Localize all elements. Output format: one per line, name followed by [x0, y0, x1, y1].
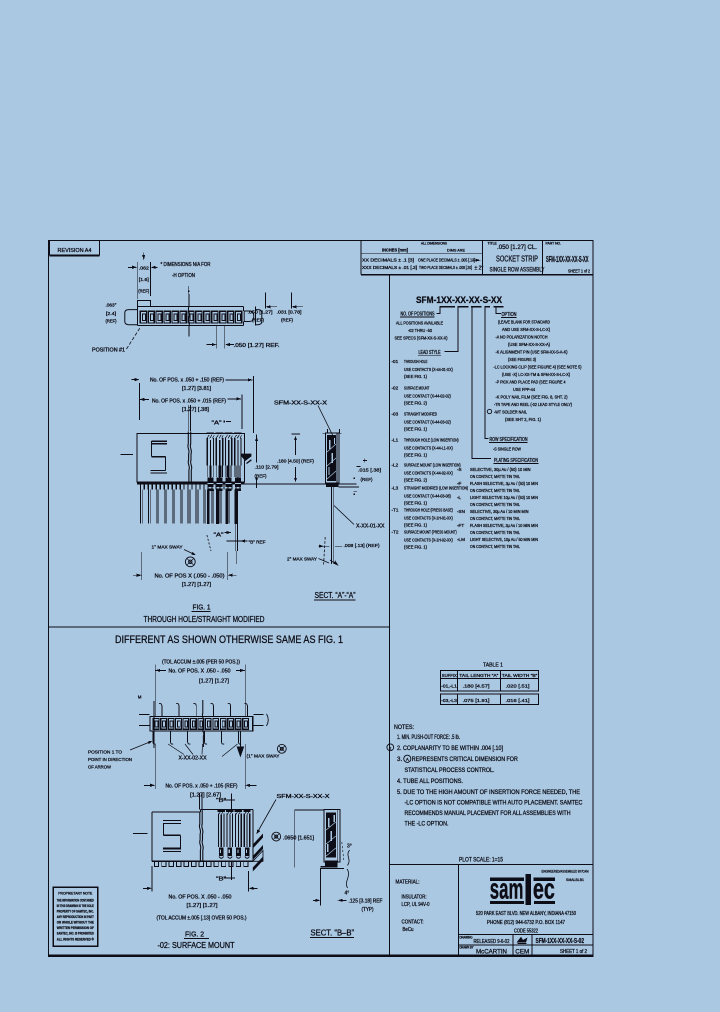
- svg-text:.0650 [1.651]: .0650 [1.651]: [283, 835, 315, 841]
- sect A-A contact fill: [327, 435, 336, 481]
- svg-text:USE CONTACTS (X-1H-02-XX): USE CONTACTS (X-1H-02-XX): [404, 537, 453, 542]
- svg-text:TAIL LENGTH “A”: TAIL LENGTH “A”: [459, 673, 498, 679]
- svg-text:-02: SURFACE MOUNT: -02: SURFACE MOUNT: [158, 941, 235, 950]
- svg-text:THE -LC OPTION.: THE -LC OPTION.: [405, 820, 449, 827]
- fig1 sway dash near pin: [207, 535, 211, 551]
- svg-text:SECT. “A”-“A”: SECT. “A”-“A”: [315, 591, 356, 600]
- svg-text:No. OF POS. x .050 + .105 (REF: No. OF POS. x .050 + .105 (REF): [166, 784, 238, 790]
- svg-text:.015 [.38]: .015 [.38]: [358, 467, 381, 473]
- svg-text:USE FPP-44: USE FPP-44: [513, 387, 535, 392]
- svg-text:-01: -01: [392, 359, 399, 364]
- svg-text:-S SINGLE ROW: -S SINGLE ROW: [493, 446, 522, 451]
- svg-text:(USE -X) LC-XX-TM & SFM-XX-S-L: (USE -X) LC-XX-TM & SFM-XX-S-LC-X): [502, 372, 570, 377]
- svg-text:PHONE (812) 944-6732 P.O. B: PHONE (812) 944-6732 P.O. BOX 1147: [487, 920, 565, 926]
- fig2 break line: [202, 700, 203, 747]
- fig1 insertion wedge arrow: [241, 454, 252, 461]
- svg-text:SHEET 1 of 2: SHEET 1 of 2: [560, 949, 587, 955]
- svg-text:ON CONTACT, MATTE TIN TAIL: ON CONTACT, MATTE TIN TAIL: [470, 474, 520, 479]
- svg-text:POSITION 1 TO: POSITION 1 TO: [88, 749, 122, 755]
- fig1 body: [137, 433, 245, 482]
- pin width dim .015: [356, 466, 360, 468]
- svg-text:REVISION A4: REVISION A4: [58, 248, 92, 254]
- svg-text:SFM-1XX-XX-XX-S-XX: SFM-1XX-XX-XX-S-XX: [546, 254, 589, 264]
- fig2 section line B bottom: [231, 861, 233, 880]
- svg-text:USE CONTACT (X-44-03-08): USE CONTACT (X-44-03-08): [404, 493, 451, 498]
- fig1 samtec S logo: [152, 440, 168, 442]
- svg-text:(SEE FIG. 1): (SEE FIG. 1): [404, 453, 427, 458]
- centerline mark: [188, 286, 190, 296]
- svg-text:-TR TAPE AND REEL (-02 LEAD S: -TR TAPE AND REEL (-02 LEAD STYLE ONLY): [494, 402, 572, 407]
- svg-text:(SEE FIG. 1): (SEE FIG. 1): [404, 427, 427, 432]
- right side dims .050/.031: [265, 293, 267, 309]
- svg-text:No. OF POS. x .050 + .015 (REF: No. OF POS. x .050 + .015 (REF): [152, 398, 226, 404]
- svg-text:[1.27] [.38]: [1.27] [.38]: [182, 407, 210, 413]
- svg-text:SFM-1XX-XX-XX-S-02: SFM-1XX-XX-XX-S-02: [536, 938, 585, 945]
- fig1 last pin with section cut: [235, 490, 237, 551]
- sway dashed line: [324, 537, 326, 565]
- svg-text:TAIL WIDTH “B”: TAIL WIDTH “B”: [502, 673, 538, 679]
- svg-text:INSULATOR:: INSULATOR:: [402, 894, 427, 900]
- svg-text:.063°: .063°: [106, 303, 117, 308]
- spc symbol fig1: [185, 557, 195, 567]
- svg-text:WRITTEN PERMISSION OF: WRITTEN PERMISSION OF: [57, 925, 94, 930]
- fig1 dim no. of pos +.150: [132, 379, 139, 381]
- svg-text:SEE SPECS (SFM-XX-S-XX-X): SEE SPECS (SFM-XX-S-XX-X): [395, 335, 448, 340]
- release stamp glyph: [517, 937, 528, 943]
- svg-text:-LC LOCKING CLIP (SEE FIGURE: -LC LOCKING CLIP (SEE FIGURE 4) (SEE NOT…: [494, 364, 582, 369]
- solder nail diamond mark: [487, 409, 491, 413]
- svg-text:IN THIS DRAWING IS THE SOLE: IN THIS DRAWING IS THE SOLE: [57, 903, 94, 908]
- svg-text:SURFACE MOUNT: SURFACE MOUNT: [404, 386, 429, 391]
- svg-text:-P PICK AND PLACE PAD (SEE FI: -P PICK AND PLACE PAD (SEE FIGURE 4: [496, 379, 566, 384]
- svg-text:ALL RIGHTS RESERVED ©: ALL RIGHTS RESERVED ©: [57, 936, 94, 941]
- svg-text:ON CONTACT, MATTE TIN TAIL: ON CONTACT, MATTE TIN TAIL: [470, 502, 520, 507]
- svg-text:(REF): (REF): [361, 477, 373, 483]
- svg-text:USE CONTACTS (X-44-L1-XX): USE CONTACTS (X-44-L1-XX): [404, 445, 453, 450]
- fig2 side rails: [139, 714, 150, 716]
- svg-text:REPRESENTS CRITICAL DIMENSION: REPRESENTS CRITICAL DIMENSION FOR: [412, 756, 518, 763]
- svg-text:-T2: -T2: [392, 530, 399, 535]
- sect A-A pin: [331, 487, 333, 564]
- svg-text:2. COPLANARITY TO BE WITHIN .0: 2. COPLANARITY TO BE WITHIN .004 [.10]: [397, 745, 503, 752]
- svg-text:(REF): (REF): [281, 317, 293, 322]
- revision box: [50, 241, 100, 256]
- fig2 strip body: [150, 717, 253, 732]
- svg-text:SECT. “B–B”: SECT. “B–B”: [311, 928, 355, 937]
- svg-text:-03: -03: [392, 412, 399, 417]
- svg-text:.110 [2.79]: .110 [2.79]: [255, 464, 279, 470]
- svg-text:THROUGH HOLE/STRAIGHT MODIFIED: THROUGH HOLE/STRAIGHT MODIFIED: [144, 615, 265, 624]
- svg-text:.031 [0.78]: .031 [0.78]: [277, 309, 302, 314]
- svg-text:No. OF POS. X .050 - .050: No. OF POS. X .050 - .050: [169, 895, 232, 901]
- svg-text:PLOT SCALE: 1=15: PLOT SCALE: 1=15: [459, 856, 503, 863]
- svg-text:“A”: “A”: [214, 532, 224, 538]
- fig1 contact tails dark: [207, 490, 210, 524]
- svg-text:(SEE FIG. 1): (SEE FIG. 1): [404, 523, 427, 528]
- svg-text:XX DECIMALS ± .1 [3]: XX DECIMALS ± .1 [3]: [362, 258, 414, 263]
- svg-text:5. DUE TO THE HIGH AMOUNT OF I: 5. DUE TO THE HIGH AMOUNT OF INSERTION F…: [397, 789, 580, 796]
- svg-text:(TYP): (TYP): [362, 907, 374, 913]
- svg-text:(LEAVE BLANK FOR STANDARD: (LEAVE BLANK FOR STANDARD: [498, 319, 551, 324]
- samtec logo: [490, 877, 524, 881]
- dim .110 vertical: [256, 435, 258, 463]
- svg-text:X-XX-02-XX: X-XX-02-XX: [179, 755, 208, 761]
- svg-text:[1.27] [1.27]: [1.27] [1.27]: [199, 679, 230, 685]
- svg-text:(USE SFM-XX-S-XX-A): (USE SFM-XX-S-XX-A): [508, 342, 550, 347]
- svg-text:-L3: -L3: [392, 486, 399, 491]
- svg-text:INCHES [mm]: INCHES [mm]: [382, 248, 408, 253]
- svg-text:No. OF POS. x .050 + .150 (REF: No. OF POS. x .050 + .150 (REF): [150, 377, 224, 383]
- svg-text:ON CONTACT, MATTE TIN TAIL: ON CONTACT, MATTE TIN TAIL: [470, 544, 520, 549]
- top view dimension .062: [143, 253, 145, 260]
- svg-text:USE CONTACTS (X-1H-01-XX): USE CONTACTS (X-1H-01-XX): [404, 515, 453, 520]
- sway bottom arrow: [333, 561, 340, 567]
- svg-text:sam: sam: [490, 873, 524, 906]
- svg-text:ON CONTACT, MATTE TIN TAIL: ON CONTACT, MATTE TIN TAIL: [470, 516, 520, 521]
- svg-text:NOTES:: NOTES:: [394, 724, 414, 731]
- svg-text:-L1: -L1: [392, 438, 399, 443]
- right tongue: [255, 310, 261, 325]
- note 2 circled mark: [387, 744, 394, 751]
- sect B-B body: [324, 810, 340, 862]
- svg-text:-F: -F: [457, 481, 462, 486]
- fig2 break line: [199, 812, 200, 861]
- svg-text:TABLE 1: TABLE 1: [483, 662, 503, 668]
- svg-text:520 PARK EAST BLVD. NEW ALBAN: 520 PARK EAST BLVD. NEW ALBANY, INDIANA …: [476, 911, 576, 917]
- svg-text:-L2: -L2: [392, 463, 399, 468]
- pitch dim extension lines below: [216, 326, 218, 349]
- svg-text:3°: 3°: [347, 843, 352, 849]
- svg-text:(SEE FIG. 2): (SEE FIG. 2): [404, 478, 427, 483]
- svg-text:(SEE FIG. 1): (SEE FIG. 1): [404, 374, 427, 379]
- divider between figures and breakdown: [389, 275, 391, 956]
- svg-text:ON CONTACT, MATTE TIN TAIL: ON CONTACT, MATTE TIN TAIL: [470, 530, 520, 535]
- svg-text:OR WHOLE WITHOUT THE: OR WHOLE WITHOUT THE: [57, 920, 94, 925]
- svg-text:.020 [.51]: .020 [.51]: [506, 683, 530, 689]
- svg-text:LIGHT SELECTIVE, 10µ Au / 50 M: LIGHT SELECTIVE, 10µ Au / 50 MIN MIN: [470, 537, 538, 542]
- svg-text:PROPRIETARY NOTE: PROPRIETARY NOTE: [58, 891, 92, 895]
- material column divider: [458, 865, 460, 956]
- svg-text:SOCKET STRIP: SOCKET STRIP: [496, 254, 538, 263]
- sect B-B foot dim: [319, 868, 321, 905]
- svg-text:.062: .062: [139, 265, 150, 270]
- break line through top view: [188, 294, 190, 307]
- svg-text:-K ALIGNMENT PIN (USE SFM-XX-: -K ALIGNMENT PIN (USE SFM-XX-S-A-K): [496, 349, 568, 354]
- svg-text:ON CONTACT, MATTE TIN TAIL: ON CONTACT, MATTE TIN TAIL: [470, 488, 520, 493]
- proprietary note box: [53, 887, 97, 946]
- table 1 header box: [441, 671, 539, 691]
- svg-text:SURFACE MOUNT (PRESS MOUNT): SURFACE MOUNT (PRESS MOUNT): [404, 530, 457, 535]
- fig1 bottom dim: [141, 552, 143, 580]
- svg-text:PROPERTY OF SAMTEC, INC.: PROPERTY OF SAMTEC, INC.: [57, 909, 94, 914]
- svg-text:SMALBLB1: SMALBLB1: [566, 877, 585, 882]
- svg-text:USE CONTACTS (X-44-02-XX): USE CONTACTS (X-44-02-XX): [404, 470, 453, 475]
- leader to option: [496, 308, 501, 314]
- svg-text:STRAIGHT MODIFIED: STRAIGHT MODIFIED: [404, 412, 438, 417]
- svg-text:(1° MAX SWAY: (1° MAX SWAY: [247, 753, 281, 759]
- svg-text:XXX DECIMALS ± .01 [.3]: XXX DECIMALS ± .01 [.3]: [362, 265, 417, 270]
- svg-text:-02: -02: [392, 386, 399, 391]
- svg-text:FLASH SELECTIVE, 3µ Au / 10 MI: FLASH SELECTIVE, 3µ Au / 10 MIN MIN: [470, 523, 538, 528]
- leader to plating specification: [472, 308, 491, 459]
- segment underlines: [440, 306, 456, 308]
- svg-text:PART NO.: PART NO.: [546, 241, 562, 245]
- svg-text:[1.6]: [1.6]: [139, 277, 149, 282]
- svg-text:“B”: “B”: [216, 798, 226, 804]
- svg-text:“A”: “A”: [212, 420, 222, 426]
- svg-text:-01,-L1: -01,-L1: [441, 683, 457, 689]
- svg-text:DRAWING: DRAWING: [460, 936, 473, 940]
- svg-text:SURFACE MOUNT (LOW INSERTION): SURFACE MOUNT (LOW INSERTION): [404, 463, 461, 468]
- fig1 extension lines: [139, 383, 141, 420]
- svg-text:SINGLE ROW ASSEMBLY: SINGLE ROW ASSEMBLY: [490, 266, 545, 273]
- tolerance block: [360, 241, 362, 275]
- svg-text:CODE 55322: CODE 55322: [514, 929, 538, 935]
- top view strip body: [125, 310, 138, 325]
- svg-text:THROUGH HOLE (PRESS BASE): THROUGH HOLE (PRESS BASE): [404, 508, 453, 513]
- svg-text:ANY REPRODUCTION IN PART: ANY REPRODUCTION IN PART: [57, 914, 94, 919]
- svg-text:.050 [1.27]: .050 [1.27]: [248, 309, 273, 314]
- svg-text:.050 [1.27] CL.: .050 [1.27] CL.: [497, 244, 537, 251]
- fig1 pcb line: [244, 483, 356, 485]
- svg-text:.180 [4.57]: .180 [4.57]: [463, 683, 490, 689]
- svg-text:-H OPTION: -H OPTION: [172, 273, 195, 279]
- svg-text:-L: -L: [457, 495, 462, 500]
- svg-text:-A NO POLARIZATION NOTCH: -A NO POLARIZATION NOTCH: [496, 334, 548, 339]
- svg-text:(SEE FIG. 1): (SEE FIG. 1): [404, 501, 427, 506]
- svg-text:-02 THRU -50: -02 THRU -50: [408, 328, 432, 333]
- svg-text:-S: -S: [457, 467, 462, 472]
- svg-text:(TOL ACCUM ±.005 [.13] OVER 50: (TOL ACCUM ±.005 [.13] OVER 50 POS.): [157, 916, 247, 922]
- svg-text:-SN: -SN: [457, 509, 465, 514]
- fig1 break line: [188, 432, 189, 484]
- svg-text:4. TUBE ALL POSITIONS.: 4. TUBE ALL POSITIONS.: [397, 778, 463, 785]
- fig2 side bottom dim: [151, 866, 153, 892]
- svg-text:.075 [1.91]: .075 [1.91]: [463, 698, 490, 704]
- svg-text:AND USE SFM-XX-S-LC-X): AND USE SFM-XX-S-LC-X): [502, 327, 550, 332]
- svg-text:SELECTIVE, 30µ Au / (50) 10 MI: SELECTIVE, 30µ Au / (50) 10 MIN: [470, 467, 530, 472]
- dim .180 vertical arrows: [295, 437, 297, 455]
- svg-text:-LC OPTION IS NOT COMPATIBLE W: -LC OPTION IS NOT COMPATIBLE WITH AUTO P…: [405, 799, 583, 806]
- top ref line fig1 right: [292, 433, 301, 435]
- spc symbol fig2: [277, 744, 286, 753]
- svg-text:-FT: -FT: [457, 523, 464, 528]
- svg-text:TITLE: TITLE: [488, 241, 498, 245]
- fig2 contacts surface mount: [218, 810, 225, 812]
- leader to lead style: [445, 308, 458, 352]
- svg-text:ALL DIMENSIONS: ALL DIMENSIONS: [421, 242, 448, 246]
- fig2 bottom dim: [154, 744, 156, 789]
- svg-text:McCARTIN: McCARTIN: [476, 949, 507, 956]
- svg-text:USE CONTACT (X-44-02-02): USE CONTACT (X-44-02-02): [404, 393, 451, 398]
- svg-text:3.: 3.: [397, 756, 402, 763]
- svg-text:(SEE SHT 2, FIG. 1): (SEE SHT 2, FIG. 1): [505, 417, 541, 422]
- fig2 upper tails: [161, 706, 163, 717]
- svg-text:.180 [4.50] (REF): .180 [4.50] (REF): [277, 458, 314, 464]
- sect A-A body: [326, 433, 339, 484]
- svg-text:.125 [3.18] REF: .125 [3.18] REF: [349, 898, 383, 904]
- svg-text:-WT SOLDER NAIL: -WT SOLDER NAIL: [494, 409, 527, 414]
- svg-text:“B”: “B”: [216, 876, 226, 882]
- title block bottom rows: [459, 934, 593, 936]
- svg-text:STRAIGHT MODIFIED (LOW INSERTI: STRAIGHT MODIFIED (LOW INSERTION): [404, 486, 468, 491]
- svg-text:.050 [1.27] REF.: .050 [1.27] REF.: [234, 343, 280, 349]
- fig1 long pins: [139, 490, 141, 524]
- svg-text:DIMS ARE: DIMS ARE: [447, 249, 465, 253]
- svg-text:ALL POSITIONS AVAILABLE: ALL POSITIONS AVAILABLE: [396, 320, 443, 325]
- svg-text:USE CONTACT (X-44-03-02): USE CONTACT (X-44-03-02): [404, 419, 451, 424]
- svg-text:THE INFORMATION CONTAINED: THE INFORMATION CONTAINED: [57, 897, 94, 902]
- title block top line: [390, 864, 594, 866]
- fig2 wedge hatch: [253, 834, 263, 849]
- svg-text:1. MIN. PUSH-OUT FORCE: .5 lb.: 1. MIN. PUSH-OUT FORCE: .5 lb.: [397, 734, 460, 741]
- svg-text:CONTACT:: CONTACT:: [402, 919, 424, 925]
- svg-text:[1.27] [1.27]: [1.27] [1.27]: [182, 582, 212, 588]
- svg-text:RELEASED 9-6-02: RELEASED 9-6-02: [474, 939, 510, 945]
- svg-text:FLASH SELECTIVE, 3µ Au / (50): FLASH SELECTIVE, 3µ Au / (50) 10 MIN: [470, 481, 538, 486]
- fig1 left reference dash: [121, 454, 134, 456]
- fig1 contacts through-hole: [206, 432, 214, 434]
- svg-text:-03,-L3: -03,-L3: [441, 698, 457, 704]
- svg-text:DRAWN BY: DRAWN BY: [460, 946, 475, 950]
- leader to row specification: [485, 308, 489, 439]
- svg-text:BeCu: BeCu: [403, 927, 414, 933]
- svg-text:SUFFIX: SUFFIX: [442, 673, 458, 679]
- svg-text:No. OF POS X (.050 - .050): No. OF POS X (.050 - .050): [155, 573, 225, 579]
- svg-text:SFM-XX-S-XX-X: SFM-XX-S-XX-X: [277, 794, 331, 800]
- svg-text:CEM: CEM: [515, 949, 529, 956]
- polarization cavity right end: [244, 311, 254, 322]
- svg-text:[1.27] [3.81]: [1.27] [3.81]: [182, 386, 212, 392]
- svg-text:2° MAX SWAY: 2° MAX SWAY: [287, 556, 318, 562]
- svg-text:.008 [.13] (REF): .008 [.13] (REF): [344, 543, 380, 549]
- fig2 break extension above: [199, 793, 201, 810]
- svg-text:A: A: [406, 757, 409, 762]
- sect B-B solder foot: [325, 861, 338, 867]
- svg-text:SFM-1XX-XX-XX-S-XX: SFM-1XX-XX-XX-S-XX: [416, 294, 503, 305]
- svg-text:-K POLY NAIL FILM (SEE FIG. 8: -K POLY NAIL FILM (SEE FIG. 8, SHT. 2): [496, 394, 568, 399]
- svg-text:SELECTIVE, 30µ Au / 10 MIN MIN: SELECTIVE, 30µ Au / 10 MIN MIN: [470, 509, 529, 514]
- svg-text:THROUGH HOLE (LOW INSERTION): THROUGH HOLE (LOW INSERTION): [404, 438, 459, 443]
- svg-text:MATERIAL:: MATERIAL:: [396, 879, 420, 885]
- sect A-A pcb lines: [339, 483, 357, 485]
- svg-text:FIG. 2: FIG. 2: [185, 929, 204, 938]
- svg-text:ec: ec: [533, 873, 555, 906]
- direction arrow fig2: [239, 732, 241, 748]
- svg-text:DIFFERENT AS SHOWN OTHERWISE S: DIFFERENT AS SHOWN OTHERWISE SAME AS FIG…: [115, 634, 343, 646]
- svg-text:[1.27] [1.27]: [1.27] [1.27]: [187, 903, 219, 909]
- svg-text:(SEE FIG. 1): (SEE FIG. 1): [404, 545, 427, 550]
- svg-text:RECOMMENDS MANUAL PLACEMENT FO: RECOMMENDS MANUAL PLACEMENT FOR ALL ASSE…: [405, 810, 571, 817]
- fig2 coplanarity symbol: [272, 832, 281, 841]
- svg-text:POSITION #1: POSITION #1: [92, 348, 125, 354]
- fig2 body: [152, 811, 201, 813]
- label B ref: [227, 540, 248, 542]
- divider between fig1 and fig2 areas: [49, 626, 390, 628]
- svg-text:No. OF POS. X .050 - .050: No. OF POS. X .050 - .050: [169, 669, 231, 675]
- svg-text:ONE PLACE DECIMALS ± .005 [.13: ONE PLACE DECIMALS ± .005 [.13]: [418, 258, 475, 263]
- leader to no. of positions: [437, 308, 440, 314]
- svg-text:THROUGH HOLE: THROUGH HOLE: [404, 359, 427, 364]
- dim .008 sway: [319, 545, 330, 547]
- sheet frame border: [49, 241, 594, 956]
- svg-text:(REF): (REF): [106, 319, 117, 324]
- svg-text:4°: 4°: [345, 890, 350, 896]
- svg-text:SAMTEC, INC. IS PROHIBITED: SAMTEC, INC. IS PROHIBITED: [57, 931, 94, 936]
- svg-text:LIGHT SELECTIVE 10µ Au / (50): LIGHT SELECTIVE 10µ Au / (50) 10 MIN: [470, 495, 538, 500]
- sect A-A solder foot: [326, 483, 339, 488]
- table 1 second row box: [441, 694, 539, 704]
- svg-text:FIG. 1: FIG. 1: [193, 602, 211, 611]
- svg-text:USE CONTACTS (X-44-01-XX): USE CONTACTS (X-44-01-XX): [404, 367, 453, 372]
- fig2 left reference dash: [133, 833, 148, 835]
- svg-text:LCP, UL 94V-0: LCP, UL 94V-0: [402, 902, 430, 908]
- svg-text:-T1: -T1: [392, 508, 399, 513]
- svg-text:(REF): (REF): [255, 473, 267, 479]
- svg-text:X-XX-01-XX: X-XX-01-XX: [356, 523, 385, 529]
- svg-text:TWO PLACE DECIMALS ± .008 [.20: TWO PLACE DECIMALS ± .008 [.20]: [419, 265, 472, 270]
- svg-text:± 2°: ± 2°: [475, 265, 484, 271]
- fig2 smt feet: [154, 862, 158, 867]
- sect B-B bracket: [295, 809, 324, 811]
- svg-text:POINT IN DIRECTION: POINT IN DIRECTION: [88, 757, 132, 763]
- svg-text:(SEE FIGURE 3): (SEE FIGURE 3): [508, 357, 536, 362]
- svg-text:STATISTICAL PROCESS CONTROL.: STATISTICAL PROCESS CONTROL.: [405, 767, 495, 774]
- svg-text:-LM: -LM: [457, 537, 465, 542]
- svg-text:(REF): (REF): [138, 288, 149, 293]
- svg-text:OF ARROW: OF ARROW: [88, 764, 111, 770]
- svg-text:SHEET 1 of 2: SHEET 1 of 2: [568, 268, 590, 273]
- svg-text:M: M: [138, 694, 142, 699]
- svg-text:(REF): (REF): [252, 317, 264, 322]
- svg-text:(TOL ACCUM ±.005 (PER 50 POS.): (TOL ACCUM ±.005 (PER 50 POS.)): [162, 659, 240, 665]
- fig2 samtec S logo: [163, 820, 181, 822]
- fig1 pin shoulders: [139, 485, 141, 490]
- svg-text:[2.4]: [2.4]: [106, 311, 116, 316]
- svg-text:SFM-XX-S-XX-X: SFM-XX-S-XX-X: [274, 400, 328, 406]
- svg-text:.016 [.41]: .016 [.41]: [506, 698, 530, 704]
- svg-text:1° MAX SWAY: 1° MAX SWAY: [152, 544, 184, 550]
- svg-text:“B” REF: “B” REF: [249, 539, 266, 545]
- fig1 dim no. of pos +.015: [140, 398, 150, 400]
- svg-text:* DIMENSIONS N/A FOR: * DIMENSIONS N/A FOR: [161, 262, 211, 268]
- fig2 lower tails: [152, 731, 154, 742]
- svg-text:(SEE FIG. 2): (SEE FIG. 2): [404, 401, 427, 406]
- contact cavities row: [140, 311, 146, 323]
